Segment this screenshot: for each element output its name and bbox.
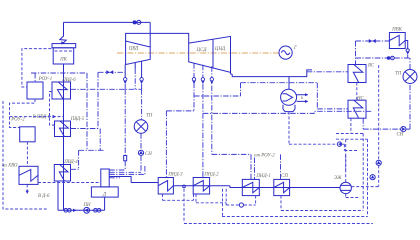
svg-text:ЦВД: ЦВД <box>128 47 139 52</box>
svg-text:СП: СП <box>281 174 288 179</box>
svg-text:ПНД-3: ПНД-3 <box>167 173 183 178</box>
svg-text:на ХВО: на ХВО <box>2 164 18 169</box>
svg-text:ЭЖ: ЭЖ <box>334 176 342 181</box>
svg-text:ТП: ТП <box>146 114 153 119</box>
svg-text:В ПВД-6: В ПВД-6 <box>33 115 51 120</box>
svg-text:РОУ-1: РОУ-1 <box>38 77 53 82</box>
svg-text:ПН: ПН <box>83 203 92 208</box>
svg-text:ВС: ВС <box>368 64 375 69</box>
svg-text:СН: СН <box>145 152 152 157</box>
svg-text:ПК: ПК <box>59 58 68 63</box>
svg-text:ПВД-5: ПВД-5 <box>70 117 85 122</box>
svg-text:ЦНД: ЦНД <box>214 47 226 52</box>
svg-text:ПНД-1: ПНД-1 <box>255 174 270 179</box>
svg-text:Г: Г <box>293 46 297 51</box>
svg-text:от РОУ-2: от РОУ-2 <box>254 154 275 159</box>
svg-text:РОУ-2: РОУ-2 <box>10 118 25 123</box>
svg-text:НС: НС <box>356 97 365 102</box>
svg-text:ПВД-4: ПВД-4 <box>63 160 78 165</box>
svg-text:ПВК: ПВК <box>391 28 403 33</box>
svg-text:ЦСД: ЦСД <box>196 48 208 53</box>
svg-text:В Д-6: В Д-6 <box>38 194 50 199</box>
svg-text:СН: СН <box>397 133 404 138</box>
svg-text:ТП: ТП <box>395 72 402 77</box>
svg-text:ПНД-2: ПНД-2 <box>203 173 219 178</box>
svg-text:ПВД-6: ПВД-6 <box>61 78 76 83</box>
